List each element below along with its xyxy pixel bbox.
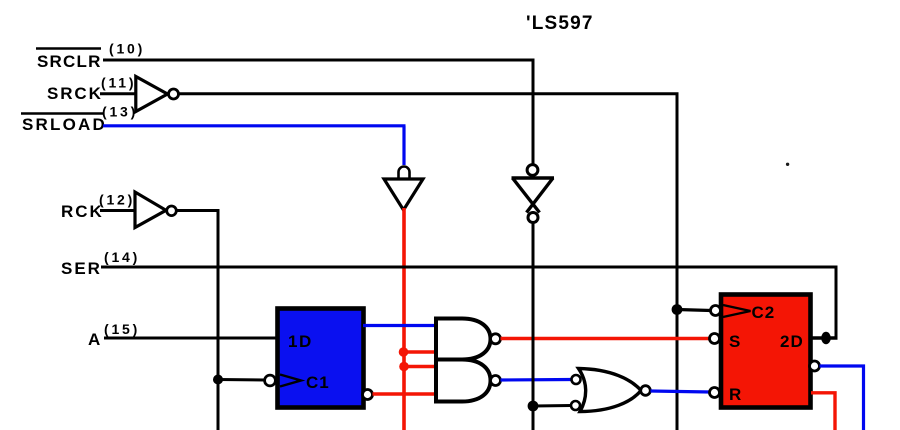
wire SRLOAD blue vertical to inverter U2	[402, 126, 405, 165]
svg-text:SRCLR: SRCLR	[37, 52, 102, 71]
inverter U4 (RCK)	[135, 192, 176, 228]
nand gate G2	[436, 360, 501, 402]
nand gate G1	[436, 319, 501, 360]
wire RCK to C1 bubble	[218, 378, 265, 382]
input label RCK pin (12)	[61, 192, 135, 222]
wire U6 Q blue output right and down	[820, 366, 864, 430]
wire RCK input stub	[100, 209, 136, 212]
input label A pin (15)	[88, 321, 140, 349]
bubble C2 input	[711, 306, 721, 316]
wire SRCK input stub	[100, 92, 137, 95]
svg-text:(14): (14)	[104, 249, 140, 265]
svg-text:SER: SER	[61, 259, 102, 278]
wire red to G2 input	[404, 365, 436, 368]
or gate G3 (negative-logic)	[571, 369, 650, 412]
wire SRCLR to G3 lower input	[533, 404, 571, 408]
input label SRLOAD pin (13)	[21, 104, 138, 135]
wire SER horizontal	[101, 266, 838, 269]
junction red bus to NAND G1	[399, 347, 409, 357]
svg-text:(15): (15)	[104, 321, 140, 337]
wire SER vertical down to 2D node	[835, 267, 838, 338]
wire red to G1 input	[404, 350, 436, 353]
junction RCK to C1	[213, 375, 223, 385]
latch U5 (blue box 1D/C1)	[278, 309, 364, 408]
input label SER pin (14)	[61, 249, 140, 278]
bubble U5 Qbar output	[363, 390, 373, 400]
stray scan dot	[786, 163, 789, 166]
bubble U6 Q output	[810, 361, 820, 371]
junction red bus to NAND G2	[399, 362, 409, 372]
wire G1 output red to S	[501, 337, 711, 340]
svg-text:SRLOAD: SRLOAD	[22, 115, 107, 134]
wire SRCLR vertical bus below U3	[532, 223, 535, 430]
wire G3 output blue to R	[651, 391, 711, 392]
svg-text:C1: C1	[306, 373, 330, 392]
inverter U2 (SRLOAD, square input bubble)	[384, 167, 423, 211]
input label SRCLR pin (10)	[36, 41, 145, 72]
junction node 2D	[821, 332, 831, 344]
svg-text:S: S	[729, 332, 740, 351]
svg-text:SRCK: SRCK	[47, 84, 103, 103]
wire SRLOAD blue horizontal	[103, 124, 406, 127]
wire A to 1D input	[104, 337, 278, 340]
wire red vertical bus from U2 output	[402, 208, 406, 430]
inverter U1 (SRCK buffer)	[136, 77, 179, 112]
wire 2D pin horizontal	[811, 336, 838, 339]
junction SRCK bus to C2	[672, 304, 683, 315]
wire U5 Q output blue	[363, 324, 436, 327]
svg-text:(13): (13)	[102, 104, 138, 120]
svg-text:1D: 1D	[288, 332, 313, 351]
svg-text:(11): (11)	[101, 75, 136, 91]
bubble S input	[710, 334, 720, 344]
wire U5 Qbar red to NAND G2	[373, 392, 437, 395]
svg-text:R: R	[729, 385, 741, 404]
input label SRCK pin (11)	[47, 75, 136, 104]
junction SRCLR to G3 input	[528, 401, 539, 412]
wire SRCK buffered horizontal	[179, 92, 679, 95]
svg-text:C2: C2	[752, 303, 776, 322]
svg-text:(12): (12)	[99, 192, 135, 208]
svg-text:A: A	[88, 330, 100, 349]
wire SRCK vertical bus	[676, 94, 679, 430]
wire SRCLR vertical down to inverter U3	[532, 60, 535, 164]
wire SRCLR horizontal	[103, 59, 535, 62]
bubble C1 input	[265, 375, 276, 386]
svg-text:'LS597: 'LS597	[526, 13, 594, 34]
wire RCK buffered to vertical bus	[177, 209, 220, 212]
latch U6 (red box C2/S/2D/R)	[721, 295, 811, 408]
svg-text:(10): (10)	[109, 41, 145, 57]
wire G2 output blue to G3 input	[501, 378, 573, 382]
wire U6 red bottom output right and down	[811, 393, 835, 430]
wire RCK vertical bus	[217, 211, 220, 430]
svg-text:2D: 2D	[780, 332, 804, 351]
wire SRCK to C2 bubble	[677, 310, 711, 311]
svg-text:RCK: RCK	[61, 202, 104, 221]
inverter U3 (SRCLR, crossed triangle with two bubbles)	[512, 165, 555, 223]
bubble R input	[710, 388, 720, 398]
